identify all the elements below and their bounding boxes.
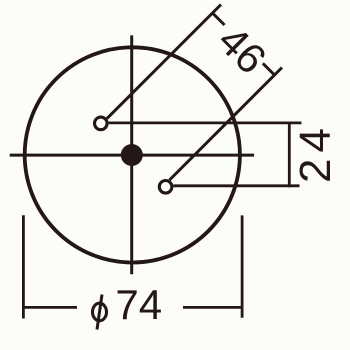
- svg-text:74: 74: [115, 281, 162, 328]
- svg-text:24: 24: [291, 122, 340, 183]
